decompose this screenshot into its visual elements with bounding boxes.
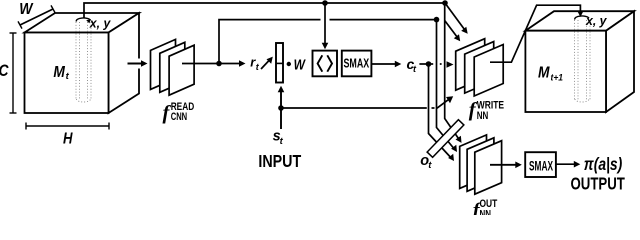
cube M_t top face	[25, 13, 140, 33]
cube M_t right face	[109, 13, 140, 113]
READ stack sheet 1	[151, 39, 176, 89]
C dimension line	[12, 33, 14, 113]
svg-text:M: M	[53, 64, 65, 81]
arrow cube to READ stack	[128, 63, 144, 65]
svg-text:M: M	[538, 65, 550, 82]
vertical bus line A (from c_t)	[429, 64, 451, 157]
cylinder top opening M_t+1	[575, 16, 589, 20]
vertical bus line B (from r_t)	[437, 20, 454, 148]
svg-text:W: W	[19, 1, 34, 18]
svg-text:x, y: x, y	[89, 16, 111, 31]
node dot c_t branch	[426, 61, 432, 67]
svg-text:CNN: CNN	[171, 111, 188, 123]
svg-text:OUTPUT: OUTPUT	[571, 174, 626, 194]
svg-text:NN: NN	[480, 209, 492, 216]
node junction dot	[216, 61, 222, 67]
arrow SMAX to c_t	[371, 63, 397, 65]
wire s_t input	[280, 90, 282, 129]
OUT stack sheet 1	[460, 135, 487, 189]
softmax box SMAX (output)	[525, 152, 556, 177]
diagonal arrow 2 to WRITE stack	[445, 21, 458, 38]
WRITE stack sheet 3	[474, 45, 503, 97]
concatenation ribbon	[427, 120, 464, 158]
arrow SMAX to policy	[556, 163, 576, 165]
arrow OUT stack to SMAX	[490, 164, 518, 166]
OUT stack sheet 3	[475, 141, 502, 195]
node dot (top wire branch)	[322, 0, 328, 6]
svg-text:t+1: t+1	[551, 73, 564, 83]
read vector rectangle	[276, 43, 283, 83]
memory cylinder (dashed) in M_t	[76, 22, 91, 102]
cube M_t+1 right face	[606, 11, 634, 112]
svg-text:x, y: x, y	[585, 13, 607, 28]
wire s_t to WRITE stack (with hops)	[281, 107, 427, 109]
cube M_t+1 top face	[525, 11, 634, 31]
inner product box	[313, 51, 338, 77]
arrow down into inner-product box	[324, 3, 326, 45]
WRITE stack sheet 1	[456, 39, 485, 90]
svg-text:SMAX: SMAX	[344, 56, 370, 71]
wire (after hop gap)	[330, 19, 437, 21]
wire READ stack to r_t with junction	[182, 63, 241, 65]
top wire from M_t x,y position	[84, 3, 445, 19]
wire WRITE stack to M_t+1 x,y	[490, 5, 580, 62]
node dot s_t branch	[278, 105, 284, 111]
cube M_t front face	[25, 33, 109, 114]
wire r_t feedback (up and right)	[219, 20, 321, 64]
W dimension line	[20, 9, 53, 25]
OUT stack sheet 2	[467, 138, 494, 192]
cube M_t+1 front face	[525, 31, 606, 112]
svg-text:C: C	[0, 61, 9, 80]
svg-text:π(a|s): π(a|s)	[584, 154, 623, 174]
diagonal arrow top-wire to WRITE stack	[445, 3, 465, 30]
svg-text:SMAX: SMAX	[529, 158, 553, 174]
node dot r_t wire end	[434, 17, 440, 23]
memory cylinder (dashed) in M_t+1	[575, 20, 591, 102]
dot product bullet	[287, 62, 291, 66]
WRITE stack sheet 2	[465, 42, 494, 94]
arrow r_t to vector	[261, 60, 270, 69]
svg-text:NN: NN	[477, 110, 489, 122]
wire c_t to WRITE stack (with hops)	[419, 63, 433, 65]
cylinder top opening	[76, 18, 90, 22]
node dot (top wire end)	[442, 0, 448, 6]
READ stack sheet 3	[169, 45, 194, 95]
READ stack sheet 2	[160, 42, 185, 92]
H dimension line	[26, 125, 109, 127]
svg-text:INPUT: INPUT	[258, 151, 301, 171]
svg-text:H: H	[63, 130, 73, 147]
svg-text:W: W	[294, 57, 307, 74]
vertical bus line C (from x,y)	[445, 3, 459, 138]
gap in cube back edge for arrow	[137, 59, 142, 69]
softmax box SMAX	[342, 51, 372, 77]
